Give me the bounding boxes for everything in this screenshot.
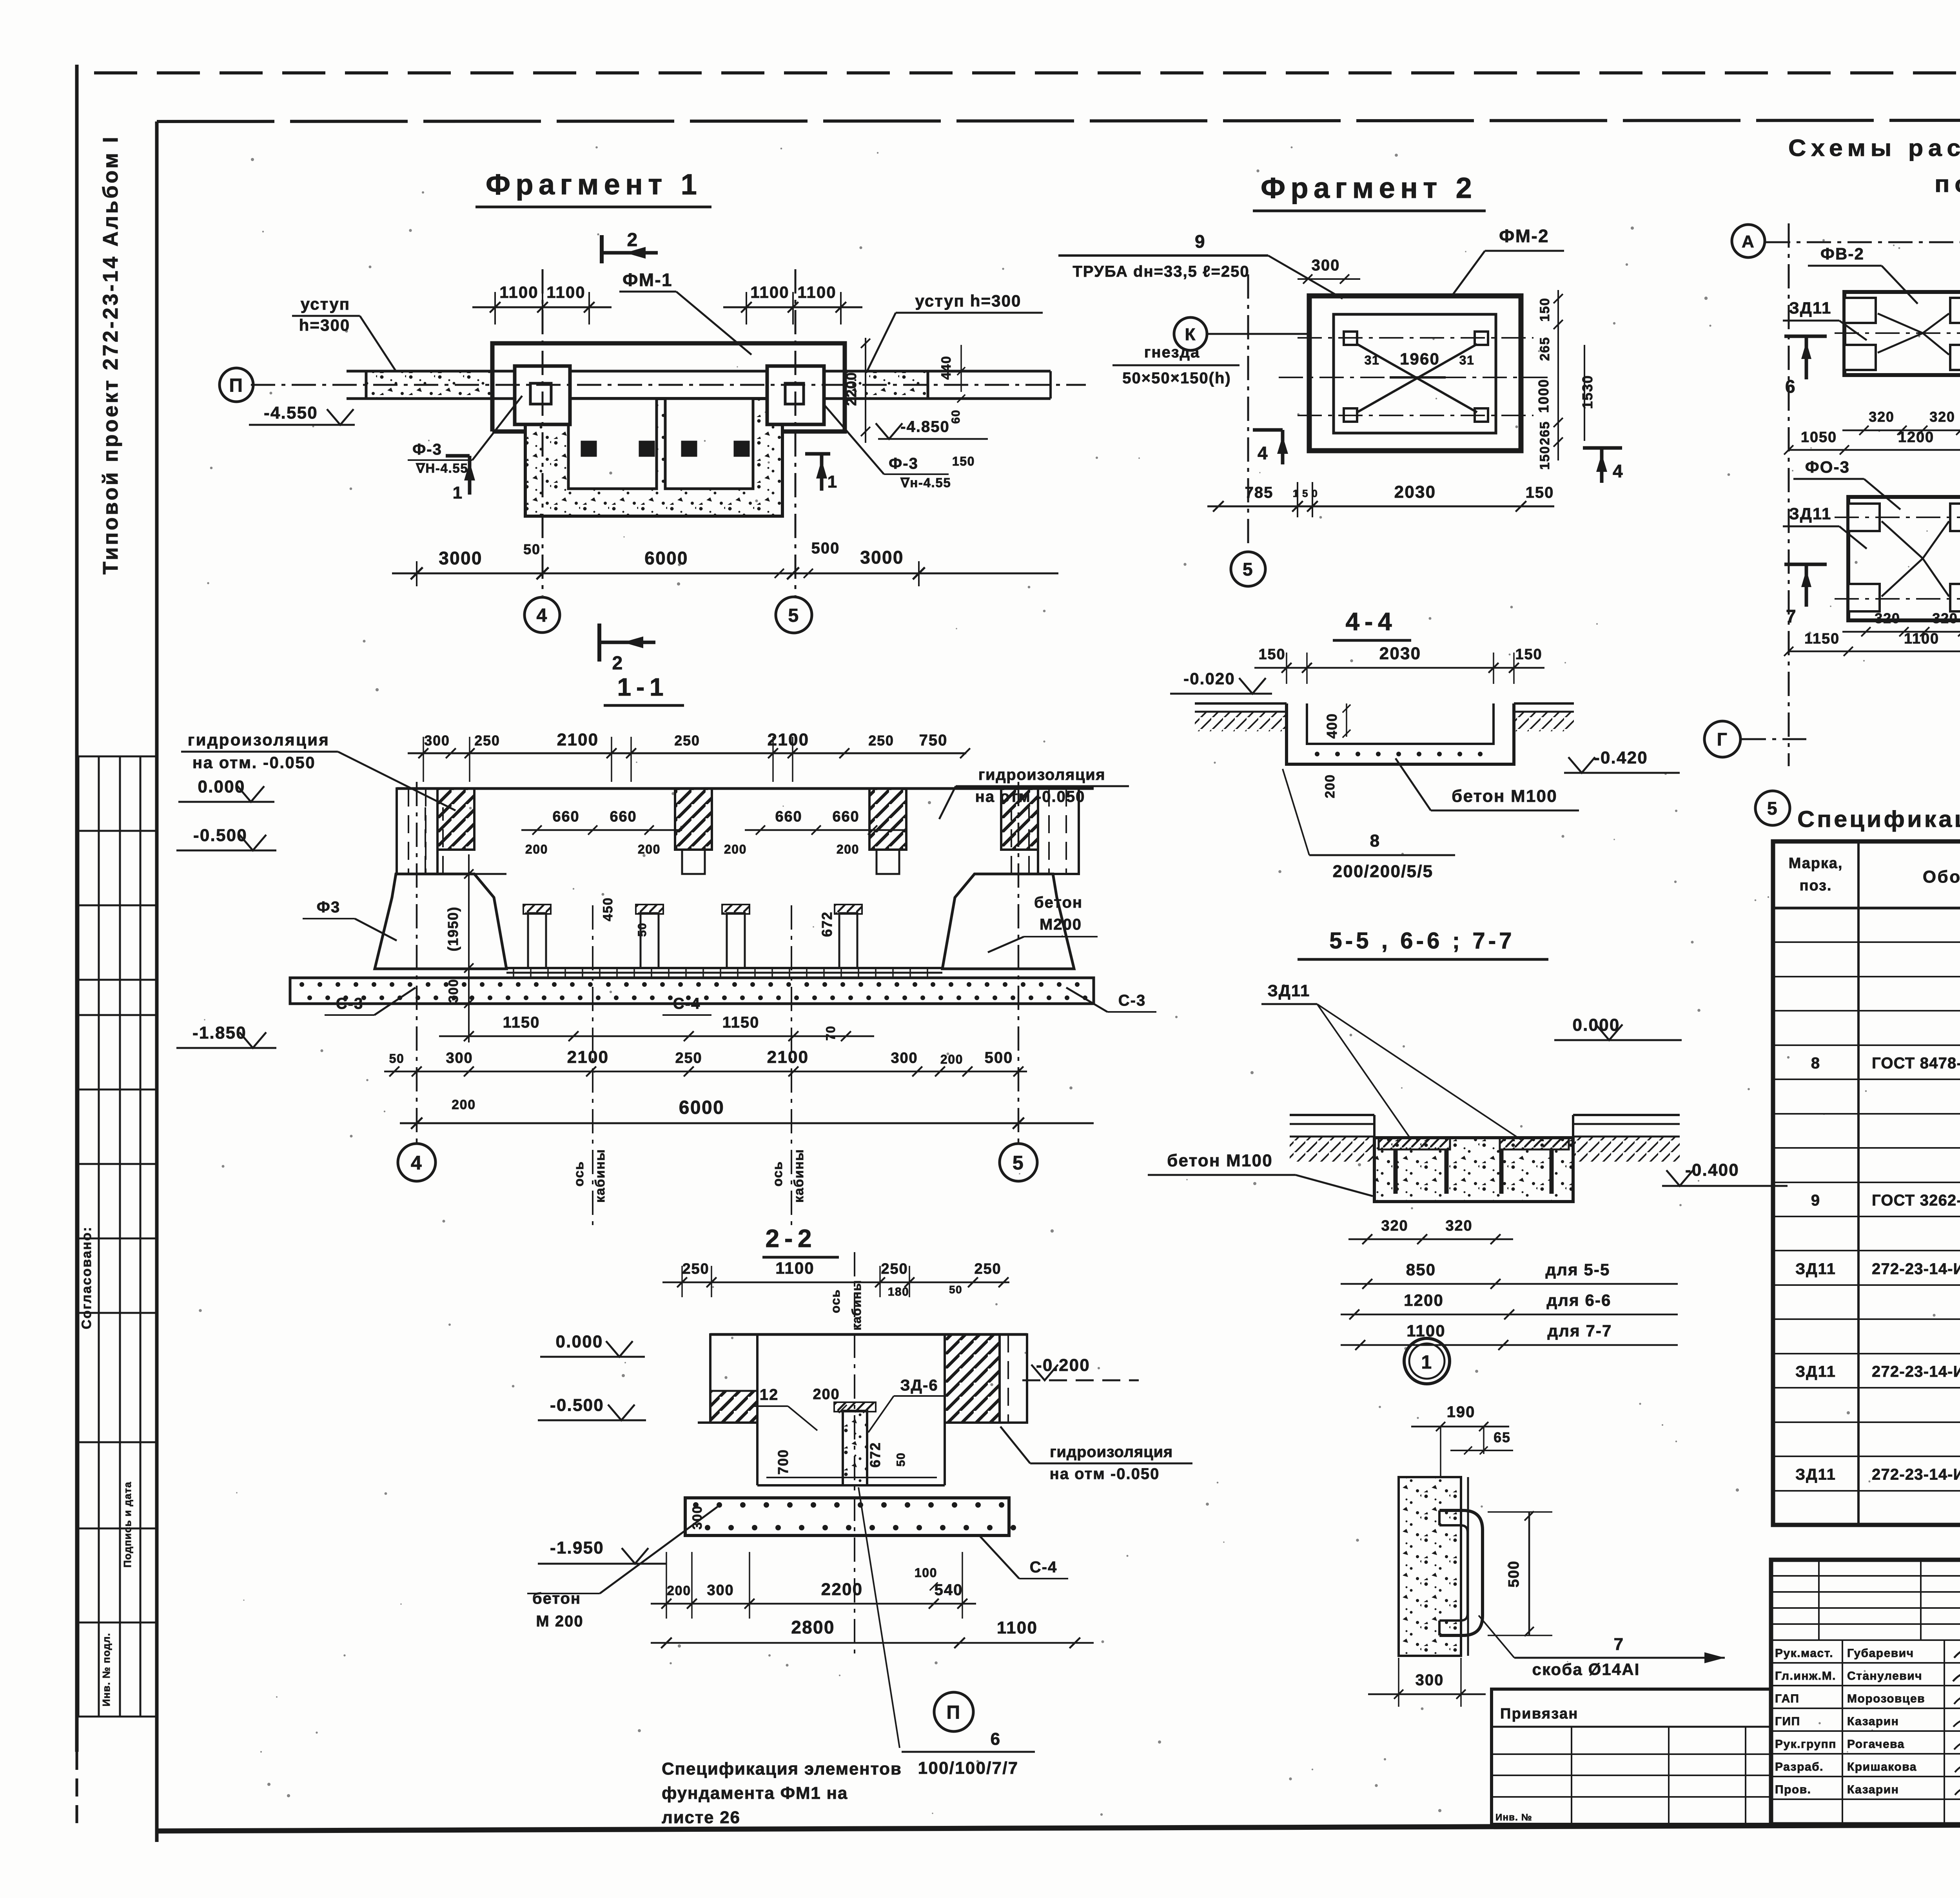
svg-text:300: 300 [891, 1050, 918, 1066]
svg-text:200: 200 [1323, 774, 1338, 798]
svg-text:2: 2 [627, 230, 638, 250]
svg-text:200: 200 [837, 842, 859, 856]
title block outer [1771, 1560, 1960, 1824]
svg-text:бетон: бетон [1034, 894, 1083, 911]
svg-text:272-23-14-ИМ-04.00.00: 272-23-14-ИМ-04.00.00 [1872, 1466, 1960, 1483]
svg-text:250: 250 [682, 1261, 709, 1277]
svg-text:ФВ-2: ФВ-2 [1820, 245, 1864, 263]
svg-text:50: 50 [523, 541, 541, 557]
svg-text:320: 320 [1875, 610, 1900, 626]
section 5-5 pavement right [1573, 1114, 1680, 1116]
fragment 1 dim 1100 pairs [472, 292, 862, 324]
svg-text:200: 200 [940, 1052, 963, 1066]
svg-text:6: 6 [991, 1729, 1001, 1749]
svg-text:ГОСТ 3262-75: ГОСТ 3262-75 [1872, 1192, 1960, 1209]
svg-text:ГИП: ГИП [1775, 1715, 1800, 1728]
svg-text:Привязан: Привязан [1500, 1706, 1579, 1722]
svg-text:7: 7 [1614, 1635, 1624, 1654]
left margin stamp grid [78, 756, 157, 1717]
detail 1 dim 500 [1528, 1512, 1530, 1635]
fragment 2 corner anchors [1344, 332, 1357, 345]
svg-text:ТРУБА dн=33,5 ℓ=250: ТРУБА dн=33,5 ℓ=250 [1073, 263, 1249, 280]
fragment 1 wall band (concrete strip) [366, 371, 492, 399]
svg-text:1150: 1150 [503, 1014, 540, 1031]
svg-text:-4.550: -4.550 [264, 403, 318, 422]
svg-text:100/100/7/7: 100/100/7/7 [918, 1758, 1019, 1778]
scan noise [199, 146, 1960, 1816]
section 2-2 cabin axis [854, 1252, 855, 1658]
svg-text:ЗД11: ЗД11 [1789, 504, 1831, 523]
svg-text:0.000: 0.000 [555, 1332, 603, 1351]
section 4-4 pavement left [1195, 702, 1287, 705]
svg-text:-4.850: -4.850 [900, 418, 949, 435]
svg-text:7: 7 [1786, 606, 1797, 626]
fragment 1 axis circle 5 [776, 597, 812, 633]
svg-text:320: 320 [1445, 1218, 1472, 1234]
svg-text:ФО-3: ФО-3 [1805, 458, 1850, 476]
svg-text:для 7-7: для 7-7 [1548, 1322, 1612, 1340]
svg-text:П: П [947, 1702, 961, 1723]
section 4-4 top dims [1254, 653, 1544, 684]
section 1-1 cabin axes [592, 905, 593, 1231]
svg-text:500: 500 [1506, 1560, 1522, 1587]
schemes dims under FO-2 [1784, 426, 1960, 455]
section 1-1 lower dims row2 [384, 1066, 1027, 1077]
svg-text:5-5 , 6-6 ; 7-7: 5-5 , 6-6 ; 7-7 [1329, 928, 1515, 954]
section 4-4 channel [1287, 703, 1514, 764]
svg-text:320: 320 [1381, 1218, 1408, 1234]
svg-text:ЗД11: ЗД11 [1795, 1260, 1836, 1278]
schemes left axis [1766, 241, 1960, 243]
svg-text:-0.400: -0.400 [1685, 1160, 1739, 1180]
svg-text:450: 450 [601, 897, 615, 921]
svg-text:660: 660 [832, 809, 859, 825]
svg-text:1100: 1100 [546, 283, 586, 301]
svg-text:70: 70 [824, 1026, 838, 1041]
svg-text:на отм -0.050: на отм -0.050 [1050, 1465, 1160, 1483]
svg-text:бетон М100: бетон М100 [1167, 1151, 1273, 1170]
fragment 2 bottom dims [1207, 482, 1554, 517]
svg-text:150: 150 [1515, 646, 1542, 663]
svg-text:31: 31 [1459, 353, 1475, 367]
svg-text:для 5-5: для 5-5 [1546, 1260, 1610, 1279]
svg-text:гидроизоляция: гидроизоляция [978, 766, 1106, 783]
svg-text:Рук.маст.: Рук.маст. [1775, 1647, 1833, 1660]
fragment 1 dim 2200 vertical [865, 338, 866, 443]
svg-text:5: 5 [1013, 1152, 1024, 1174]
svg-text:1100: 1100 [797, 283, 837, 301]
svg-text:4: 4 [536, 605, 548, 626]
svg-text:М 200: М 200 [536, 1613, 583, 1630]
svg-text:для 6-6: для 6-6 [1547, 1291, 1612, 1309]
fragment 2 axis K [1174, 317, 1207, 350]
section 2-2 axis P circle [934, 1692, 973, 1731]
svg-text:500: 500 [811, 540, 840, 557]
section 1-1 pedestals [528, 913, 546, 968]
svg-text:1100: 1100 [775, 1259, 815, 1277]
svg-text:∇Н-4.55: ∇Н-4.55 [416, 461, 468, 475]
svg-text:6000: 6000 [644, 548, 688, 568]
svg-text:31: 31 [1365, 353, 1380, 367]
svg-text:1: 1 [453, 483, 463, 502]
svg-text:672: 672 [819, 911, 835, 937]
svg-text:200: 200 [638, 842, 661, 856]
fragment 1 axis circle 4 [524, 597, 560, 633]
svg-text:200: 200 [452, 1097, 476, 1112]
svg-text:4: 4 [411, 1152, 423, 1174]
section 1-1 total dim 6000 [400, 1122, 1094, 1124]
svg-text:660: 660 [775, 809, 802, 825]
svg-text:60: 60 [949, 410, 962, 424]
schemes dims under FO-3 [1784, 627, 1960, 656]
fragment 1 FM-1 outline [492, 343, 845, 431]
svg-text:бетон М100: бетон М100 [1452, 787, 1557, 806]
svg-text:200/200/5/5: 200/200/5/5 [1333, 862, 1434, 881]
svg-text:С-3: С-3 [336, 995, 363, 1012]
svg-text:50: 50 [949, 1283, 962, 1296]
svg-text:С-3: С-3 [1118, 992, 1146, 1009]
svg-text:Морозовцев: Морозовцев [1847, 1692, 1925, 1705]
svg-text:-1.950: -1.950 [550, 1538, 604, 1557]
svg-text:700: 700 [775, 1449, 791, 1474]
fragment 2 axis A circle [1732, 225, 1765, 257]
section 1-1 left wall [397, 789, 437, 874]
section 4-4 pavement right [1514, 702, 1574, 705]
svg-text:-0.200: -0.200 [1036, 1356, 1090, 1375]
svg-text:поз.: поз. [1800, 877, 1832, 894]
svg-text:Разраб.: Разраб. [1775, 1760, 1824, 1773]
svg-text:∇н-4.55: ∇н-4.55 [900, 475, 951, 490]
svg-text:9: 9 [1195, 231, 1206, 252]
fragment 1 section mark 2 (bottom) [599, 624, 655, 674]
section 2-2 left wall [710, 1334, 757, 1423]
detail 1 C-bracket [1439, 1510, 1483, 1635]
svg-text:Казарин: Казарин [1847, 1715, 1899, 1728]
section 2-2 right wall [945, 1334, 1000, 1423]
spec table grid [1773, 841, 1960, 1525]
svg-text:листе 26: листе 26 [662, 1808, 740, 1827]
svg-text:1100: 1100 [1904, 631, 1939, 647]
svg-text:1100: 1100 [750, 283, 789, 301]
svg-text:h=300: h=300 [299, 316, 350, 334]
svg-text:Г: Г [1717, 729, 1728, 750]
svg-text:190: 190 [1447, 1403, 1475, 1421]
svg-text:1000: 1000 [1535, 379, 1552, 413]
svg-text:300: 300 [707, 1582, 734, 1599]
section 2-2 mesh fraction callout [858, 1487, 900, 1748]
svg-text:440: 440 [939, 355, 954, 380]
title block signature rows [1771, 1640, 1960, 1824]
svg-text:5: 5 [1767, 798, 1778, 819]
svg-text:Спецификация элементов монол: Спецификация элементов монолитных фундам… [1797, 807, 1960, 832]
svg-text:Кришакова: Кришакова [1847, 1760, 1917, 1773]
svg-text:на отм. -0.050: на отм. -0.050 [192, 753, 316, 772]
svg-text:ЗД11: ЗД11 [1267, 981, 1310, 1000]
svg-text:150: 150 [1537, 446, 1552, 470]
svg-text:660: 660 [610, 809, 637, 825]
svg-text:ФМ-1: ФМ-1 [622, 270, 673, 290]
svg-text:кабины: кабины [593, 1149, 608, 1203]
title block upper-left grid [1771, 1560, 1960, 1640]
detail 1 circle [1404, 1338, 1450, 1384]
svg-text:50: 50 [636, 923, 649, 937]
svg-text:265: 265 [1537, 337, 1552, 361]
svg-text:-0.420: -0.420 [1594, 748, 1648, 767]
fragment 2 diagonals [1357, 344, 1477, 412]
svg-text:250: 250 [675, 1050, 702, 1066]
svg-text:1200: 1200 [1898, 429, 1934, 446]
svg-text:Рук.групп: Рук.групп [1775, 1738, 1837, 1751]
svg-text:9: 9 [1811, 1192, 1820, 1209]
svg-text:ФМ-2: ФМ-2 [1499, 226, 1549, 246]
section 1-1 lower dims row1 [439, 1031, 874, 1041]
svg-text:272-23-14-ИМ-04.00.00: 272-23-14-ИМ-04.00.00 [1872, 1260, 1960, 1278]
svg-text:Обозначение: Обозначение [1923, 867, 1960, 886]
svg-text:гнезда: гнезда [1144, 344, 1200, 361]
svg-text:2100: 2100 [557, 730, 599, 749]
section 2-2 top line [710, 1333, 1027, 1336]
section 1-1 660 dims [521, 825, 906, 835]
svg-text:250: 250 [974, 1261, 1001, 1277]
section 1-1 pit floor line [474, 873, 506, 875]
section 1-1 hatched walls [437, 789, 474, 850]
svg-text:Подпись и дата: Подпись и дата [122, 1481, 133, 1568]
svg-text:Согласовано:: Согласовано: [79, 1226, 94, 1329]
svg-text:ЗД11: ЗД11 [1795, 1363, 1836, 1380]
svg-text:кабины: кабины [849, 1280, 864, 1331]
section 1-1 left footing trapezoid [375, 874, 506, 969]
svg-text:Спецификация элементов: Спецификация элементов [662, 1759, 902, 1778]
svg-text:200: 200 [813, 1386, 840, 1403]
svg-text:Инв. №: Инв. № [1495, 1812, 1532, 1823]
svg-text:400: 400 [1324, 713, 1340, 738]
svg-text:кабины: кабины [791, 1149, 806, 1203]
schemes axis G circle [1704, 721, 1740, 757]
svg-text:785: 785 [1245, 484, 1274, 501]
svg-text:Типовой проект 272-23-14 Ал: Типовой проект 272-23-14 Альбом I [99, 135, 122, 575]
section 1-1 right wall [1038, 789, 1079, 874]
svg-text:2200: 2200 [821, 1580, 863, 1599]
fragment 2 centerlines [1298, 337, 1534, 339]
section 1-1 top slab line [397, 787, 1094, 790]
svg-text:ЗД11: ЗД11 [1789, 299, 1831, 317]
svg-text:50×50×150(h): 50×50×150(h) [1122, 370, 1231, 387]
svg-text:750: 750 [919, 732, 948, 749]
svg-text:65: 65 [1494, 1429, 1511, 1445]
svg-text:-0.500: -0.500 [550, 1396, 604, 1415]
svg-text:2030: 2030 [1394, 482, 1436, 502]
svg-text:4: 4 [1258, 443, 1269, 463]
svg-text:2100: 2100 [567, 1048, 609, 1067]
svg-text:3000: 3000 [439, 548, 483, 568]
schemes section mark 7 left [1784, 564, 1827, 626]
svg-text:Казарин: Казарин [1847, 1783, 1899, 1796]
section 2-2 top dims [662, 1266, 1009, 1297]
svg-text:Губаревич: Губаревич [1847, 1647, 1914, 1660]
svg-text:300: 300 [446, 1050, 473, 1066]
schemes block FO-3 [1835, 497, 1960, 620]
detail 1 concrete bar [1399, 1477, 1461, 1656]
svg-text:ГОСТ 8478-66: ГОСТ 8478-66 [1872, 1055, 1960, 1072]
svg-text:1530: 1530 [1579, 375, 1595, 409]
svg-text:на отм -0.050: на отм -0.050 [975, 788, 1085, 805]
svg-text:150: 150 [1537, 297, 1552, 322]
fragment 1 main dim line [392, 561, 1058, 586]
svg-text:П: П [229, 375, 244, 396]
svg-text:1050: 1050 [1801, 429, 1837, 446]
section 1-1 mesh line between footings [506, 968, 942, 977]
svg-text:Гл.инж.М.: Гл.инж.М. [1775, 1670, 1836, 1682]
svg-text:2100: 2100 [768, 730, 809, 749]
svg-text:Ф3: Ф3 [317, 899, 340, 916]
schemes section mark 6 left [1784, 336, 1827, 397]
svg-text:850: 850 [1406, 1260, 1436, 1279]
svg-text:фундамента ФМ1 на: фундамента ФМ1 на [662, 1784, 848, 1803]
svg-text:5: 5 [788, 605, 799, 626]
svg-text:1150: 1150 [722, 1014, 760, 1031]
section 1-1 right footing trapezoid [942, 874, 1074, 969]
svg-text:ось: ось [572, 1161, 586, 1186]
svg-text:К: К [1185, 325, 1196, 344]
svg-text:50: 50 [389, 1051, 405, 1066]
svg-text:150: 150 [1526, 484, 1554, 501]
section 5-5 block [1374, 1138, 1573, 1202]
svg-text:под оборудование: под оборудование [1935, 171, 1960, 197]
svg-text:5: 5 [1243, 559, 1254, 580]
svg-text:50: 50 [895, 1452, 907, 1467]
svg-text:320: 320 [1932, 610, 1958, 626]
svg-text:2100: 2100 [767, 1048, 809, 1067]
svg-text:320: 320 [1869, 409, 1894, 425]
svg-text:265: 265 [1537, 421, 1552, 445]
svg-text:6000: 6000 [679, 1097, 724, 1118]
svg-text:ось: ось [770, 1161, 785, 1186]
svg-text:300: 300 [1312, 257, 1340, 274]
svg-text:200: 200 [724, 842, 747, 856]
svg-text:Пров.: Пров. [1775, 1783, 1811, 1796]
svg-text:1: 1 [1421, 1352, 1432, 1373]
svg-text:2200: 2200 [843, 372, 859, 406]
svg-text:уступ h=300: уступ h=300 [915, 292, 1021, 310]
section 1-1 top dims [408, 737, 970, 782]
svg-text:150: 150 [952, 454, 975, 468]
svg-text:С-4: С-4 [673, 995, 701, 1012]
svg-text:320: 320 [1929, 409, 1955, 425]
svg-text:8: 8 [1811, 1055, 1820, 1072]
svg-text:150: 150 [1258, 646, 1285, 663]
svg-text:Ф-3: Ф-3 [412, 441, 442, 458]
svg-text:Фрагмент 1: Фрагмент 1 [486, 168, 702, 201]
detail 1 dim 190 [1411, 1426, 1509, 1428]
section 1-1 wall stems below hatch [682, 850, 705, 874]
section 1-1 left vertical dims [468, 854, 470, 1042]
fragment 1 section mark 2 (top) [602, 230, 658, 263]
attachment table (left of title block) [1492, 1689, 1771, 1824]
svg-text:Ф-3: Ф-3 [889, 455, 918, 472]
svg-text:200: 200 [667, 1583, 691, 1598]
svg-text:1100: 1100 [997, 1618, 1038, 1637]
section 1-1 base slab [290, 978, 1094, 1004]
svg-text:12: 12 [760, 1386, 779, 1403]
svg-text:Схемы расположения фундамент: Схемы расположения фундаментов [1788, 135, 1960, 161]
svg-text:(1950): (1950) [445, 906, 461, 952]
svg-text:гидроизоляция: гидроизоляция [188, 731, 330, 749]
svg-text:М200: М200 [1040, 916, 1082, 933]
schemes block FO-2 [1835, 292, 1960, 375]
svg-text:250: 250 [474, 732, 500, 749]
svg-text:200: 200 [525, 842, 548, 856]
section 2-2 pedestal with embed ZD-6 [843, 1411, 867, 1485]
svg-text:Рогачева: Рогачева [1847, 1738, 1905, 1751]
svg-text:660: 660 [552, 809, 579, 825]
svg-text:2800: 2800 [791, 1617, 835, 1637]
svg-text:Станулевич: Станулевич [1847, 1670, 1922, 1682]
svg-text:1: 1 [828, 472, 838, 491]
fragment 1 column squares [515, 366, 570, 424]
fragment 2 inner rect [1334, 314, 1496, 433]
svg-text:250: 250 [881, 1261, 908, 1277]
section 5-5 dims 320 320 [1348, 1234, 1513, 1244]
detail 1 dim 300 [1368, 1693, 1486, 1695]
svg-text:4: 4 [1613, 461, 1624, 481]
section 2-2 pit [756, 1423, 759, 1485]
svg-text:672: 672 [867, 1442, 883, 1467]
svg-text:ось: ось [828, 1289, 842, 1313]
svg-text:Инв. № подл.: Инв. № подл. [100, 1633, 112, 1706]
svg-text:1200: 1200 [1404, 1291, 1444, 1309]
fragment 2 section marks 4 [1253, 430, 1288, 464]
svg-text:272-23-14-ИМ-04.00.00: 272-23-14-ИМ-04.00.00 [1872, 1363, 1960, 1380]
fragment 1 pit [525, 399, 782, 516]
fragment 2 outer rect [1309, 296, 1521, 451]
title block signatures scribbles [1954, 1645, 1960, 1660]
section 2-2 dims row2 [651, 1637, 1094, 1648]
svg-text:1100: 1100 [499, 283, 539, 301]
svg-text:4-4: 4-4 [1346, 607, 1397, 636]
svg-text:250: 250 [868, 732, 894, 749]
svg-text:300: 300 [1416, 1671, 1444, 1689]
svg-text:Фрагмент 2: Фрагмент 2 [1261, 172, 1477, 204]
svg-text:250: 250 [674, 732, 700, 749]
svg-text:уступ: уступ [301, 295, 350, 313]
svg-text:гидроизоляция: гидроизоляция [1050, 1443, 1173, 1461]
svg-text:300: 300 [424, 732, 450, 749]
svg-text:Марка,: Марка, [1789, 855, 1843, 872]
svg-text:бетон: бетон [532, 1590, 581, 1607]
svg-text:3000: 3000 [860, 547, 904, 567]
svg-text:1960: 1960 [1400, 350, 1440, 368]
svg-text:500: 500 [985, 1049, 1013, 1066]
svg-text:8: 8 [1370, 831, 1381, 850]
section 2-2 footing slab [685, 1498, 1016, 1535]
section 1-1 axis circles [416, 782, 418, 1144]
svg-text:-0.020: -0.020 [1183, 669, 1235, 688]
svg-text:2: 2 [612, 653, 623, 674]
svg-text:540: 540 [935, 1581, 963, 1599]
section 5-5 pavement left [1290, 1114, 1374, 1116]
svg-text:ГАП: ГАП [1775, 1692, 1799, 1705]
svg-text:180: 180 [888, 1285, 909, 1298]
svg-text:А: А [1742, 232, 1755, 251]
fragment 1 axis lines [251, 384, 1086, 386]
fragment 2 right dims [1553, 290, 1584, 460]
svg-text:1-1: 1-1 [617, 673, 669, 701]
svg-text:2030: 2030 [1379, 644, 1421, 663]
detail 1 dim 65 [1450, 1450, 1513, 1451]
svg-text:С-4: С-4 [1030, 1559, 1057, 1576]
spec table heading circle 5 [1755, 791, 1790, 825]
fragment 1 axis circle P [220, 368, 253, 402]
